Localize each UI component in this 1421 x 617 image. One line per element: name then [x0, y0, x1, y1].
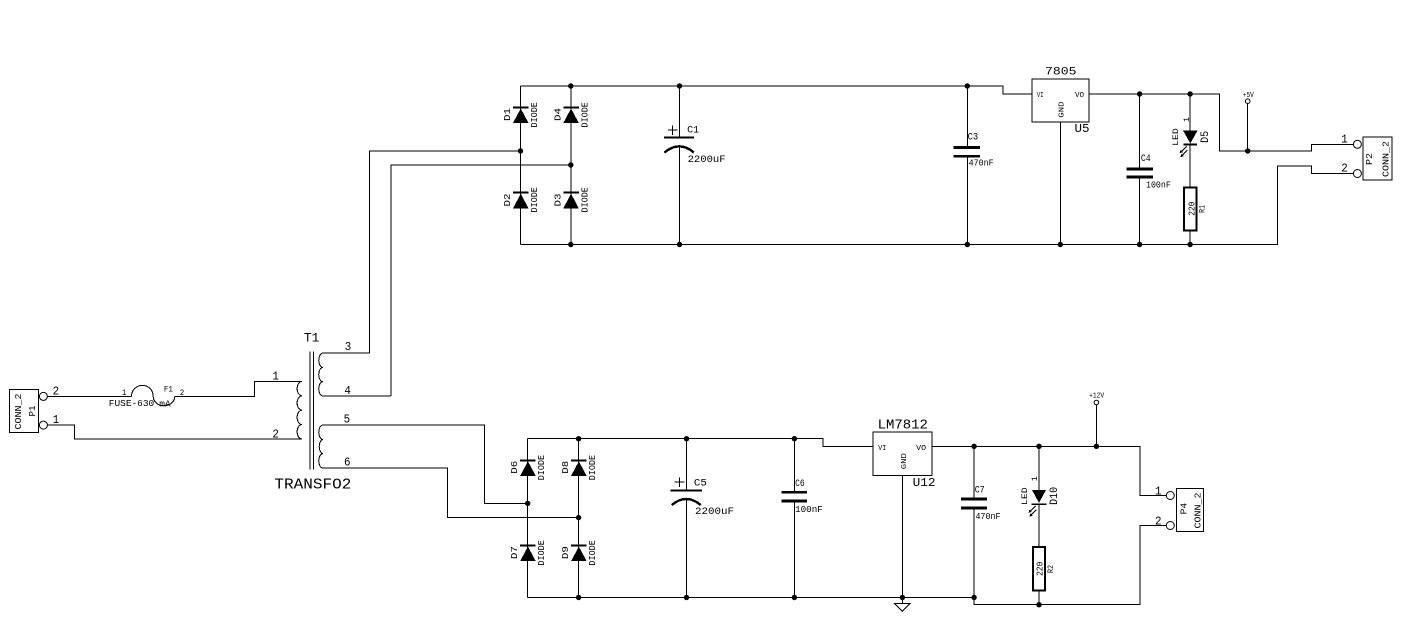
resistor R1 [1184, 188, 1207, 245]
diode D8 [561, 455, 598, 480]
wire bottom top rail to LM7812 VI [528, 439, 874, 447]
junction R1 bottom [1187, 242, 1192, 247]
svg-text:+5V: +5V [1243, 92, 1255, 100]
wire fuse to transformer pin1 [175, 381, 302, 396]
svg-text:1: 1 [1031, 476, 1040, 481]
svg-text:FUSE-630: FUSE-630 [109, 398, 155, 409]
power symbol +12V [1089, 392, 1105, 446]
junction bridge1 bottom rail col2 [568, 242, 573, 247]
svg-text:LM7812: LM7812 [878, 418, 928, 433]
junction U5 GND [1058, 242, 1063, 247]
svg-text:LED: LED [1172, 128, 1181, 146]
svg-text:D4: D4 [553, 108, 563, 121]
junction bridge2 top rail col2 [576, 436, 581, 441]
wire T1 pin5 to bridge node C [323, 425, 528, 503]
svg-text:100nF: 100nF [1146, 181, 1171, 191]
junction C6 top [792, 436, 797, 441]
junction C6 bottom [792, 595, 797, 600]
diode D3 [553, 187, 590, 212]
fuse F1 [109, 385, 185, 410]
wire bottom ground rail to P4 pin 2 [528, 526, 1167, 605]
svg-text:1: 1 [1341, 132, 1348, 146]
wire LM7812 GND pin [901, 475, 903, 603]
svg-text:1: 1 [122, 389, 127, 398]
svg-text:F1: F1 [164, 385, 173, 395]
svg-text:2: 2 [272, 428, 279, 442]
capacitor C1 [664, 86, 726, 245]
svg-text:D6: D6 [510, 461, 520, 474]
svg-text:D9: D9 [561, 546, 571, 559]
svg-text:DIODE: DIODE [580, 102, 590, 127]
svg-text:C4: C4 [1141, 154, 1151, 165]
svg-text:4: 4 [344, 384, 351, 398]
secondary winding 5-6 [319, 425, 323, 468]
wire 7805 GND pin [1059, 122, 1061, 245]
diode D7 [510, 540, 547, 565]
connector P1 [10, 385, 60, 433]
P1 pin 1 circle [39, 421, 47, 429]
wire bridge2 column 1 [527, 439, 529, 598]
svg-text:470nF: 470nF [976, 512, 1001, 522]
svg-text:VO: VO [916, 445, 927, 453]
svg-text:CONN_2: CONN_2 [1194, 493, 1204, 529]
svg-text:2: 2 [1341, 162, 1348, 176]
P1 pin 2 circle [39, 392, 47, 400]
resistor R2 [1033, 547, 1056, 605]
svg-text:DIODE: DIODE [537, 455, 547, 480]
svg-text:470nF: 470nF [969, 158, 994, 168]
svg-text:C5: C5 [694, 479, 707, 490]
diode D2 [503, 187, 540, 212]
wire bridge column 1 top [520, 86, 522, 245]
svg-text:GND: GND [1059, 101, 1067, 118]
junction C1 bottom [677, 242, 682, 247]
junction C4 top [1137, 91, 1142, 96]
node D bridge2 right mid [576, 515, 581, 520]
svg-text:2200uF: 2200uF [688, 154, 726, 166]
junction C4 bottom [1137, 242, 1142, 247]
junction R2 bottom [1036, 602, 1041, 607]
junction +5V net [1245, 148, 1250, 153]
core line right [313, 351, 315, 469]
wire T1 pin6 to bridge node D [323, 468, 579, 517]
svg-text:1: 1 [272, 370, 279, 384]
junction C7 top [971, 444, 976, 449]
wire 7805 VO to P2 pin 1 [1089, 94, 1354, 151]
svg-text:VI: VI [878, 445, 886, 453]
capacitor C7 [961, 446, 1001, 597]
capacitor C6 [782, 439, 823, 598]
svg-text:D3: D3 [553, 194, 563, 207]
primary winding [297, 381, 302, 439]
junction ground node [900, 595, 905, 600]
transformer T1 [272, 330, 391, 493]
svg-text:C3: C3 [968, 133, 979, 144]
wire bottom rail to P2 pin 2 [521, 166, 1354, 245]
svg-text:3: 3 [345, 340, 352, 354]
svg-text:D8: D8 [561, 461, 571, 474]
svg-text:6: 6 [344, 456, 351, 470]
svg-text:U12: U12 [913, 476, 936, 490]
junction +12V net [1094, 444, 1099, 449]
diode D1 [503, 102, 540, 127]
svg-text:1: 1 [1183, 117, 1192, 122]
junction bridge1 top rail col2 [568, 83, 573, 88]
junction D10 top [1036, 444, 1041, 449]
wire T1 pin3 to bridge node A [323, 151, 521, 353]
svg-text:DIODE: DIODE [588, 455, 598, 480]
svg-text:D10: D10 [1049, 487, 1061, 505]
svg-text:DIODE: DIODE [580, 187, 590, 212]
svg-text:7805: 7805 [1045, 66, 1077, 78]
svg-text:R2: R2 [1046, 565, 1056, 573]
svg-text:CONN_2: CONN_2 [1381, 141, 1391, 177]
svg-text:P2: P2 [1364, 153, 1375, 165]
diode D6 [510, 455, 547, 480]
junction C7 bottom [971, 595, 976, 600]
wire LM7812 VO to P4 pin 1 [932, 446, 1166, 495]
core line left [309, 351, 311, 469]
junction C5 bottom [684, 595, 689, 600]
junction C1 top [677, 83, 682, 88]
diode D4 [553, 102, 590, 127]
ground symbol [895, 604, 910, 612]
wire P1 pin2 to fuse [47, 395, 131, 397]
wire T1 pin4 to bridge node B [391, 165, 571, 396]
svg-text:LED: LED [1021, 487, 1030, 505]
node B bridge1 right mid [568, 162, 573, 167]
svg-text:R1: R1 [1198, 205, 1208, 213]
connector P4 [1155, 485, 1204, 532]
junction bridge2 bottom rail col2 [576, 595, 581, 600]
capacitor C3 [954, 86, 994, 245]
regulator U12 LM7812 [873, 418, 935, 490]
svg-text:DIODE: DIODE [588, 540, 598, 565]
svg-text:1: 1 [1155, 485, 1162, 499]
wire bridge2 column 2 [578, 439, 580, 598]
svg-text:C1: C1 [687, 126, 699, 137]
svg-text:2: 2 [1155, 515, 1162, 529]
svg-text:P1: P1 [27, 405, 38, 416]
svg-text:P4: P4 [1178, 503, 1189, 515]
svg-text:mA: mA [159, 399, 171, 410]
svg-text:220: 220 [1186, 201, 1197, 215]
junction C3 top [965, 83, 970, 88]
svg-text:220: 220 [1035, 561, 1046, 575]
svg-text:D1: D1 [503, 108, 513, 121]
svg-text:CONN_2: CONN_2 [14, 394, 24, 430]
connector P2 [1341, 132, 1392, 180]
svg-text:T1: T1 [304, 330, 320, 345]
svg-text:D7: D7 [510, 546, 520, 559]
junction D5 top [1187, 91, 1192, 96]
capacitor C4 [1127, 94, 1171, 245]
svg-text:VI: VI [1037, 92, 1044, 100]
svg-text:C6: C6 [795, 479, 805, 490]
node A bridge1 left mid [518, 148, 523, 153]
junction C3 bottom [965, 242, 970, 247]
junction C5 top [684, 436, 689, 441]
wire bridge column 2 top [570, 86, 572, 245]
diode D9 [561, 540, 598, 565]
svg-text:2200uF: 2200uF [695, 506, 734, 518]
svg-text:D2: D2 [503, 194, 513, 207]
svg-text:100nF: 100nF [795, 505, 823, 515]
svg-text:DIODE: DIODE [530, 187, 540, 212]
svg-text:D5: D5 [1200, 131, 1212, 143]
wire top rail to 7805 VI [521, 86, 1033, 94]
svg-text:5: 5 [344, 413, 351, 427]
wire P1 pin1 to transformer pin2 [47, 425, 298, 439]
svg-text:C7: C7 [975, 486, 985, 497]
secondary winding 3-4 [319, 353, 392, 396]
regulator U5 7805 [1032, 66, 1090, 136]
LED D10 [1021, 446, 1061, 547]
svg-text:+12V: +12V [1089, 392, 1105, 400]
svg-text:VO: VO [1075, 92, 1084, 100]
svg-text:DIODE: DIODE [537, 540, 547, 565]
svg-text:GND: GND [901, 453, 909, 470]
svg-text:DIODE: DIODE [530, 102, 540, 127]
node C bridge2 left mid [525, 501, 530, 506]
svg-text:U5: U5 [1075, 122, 1090, 136]
capacitor C5 [671, 439, 734, 598]
svg-text:TRANSFO2: TRANSFO2 [274, 477, 351, 494]
LED D5 [1172, 94, 1212, 188]
power symbol +5V [1243, 92, 1255, 151]
